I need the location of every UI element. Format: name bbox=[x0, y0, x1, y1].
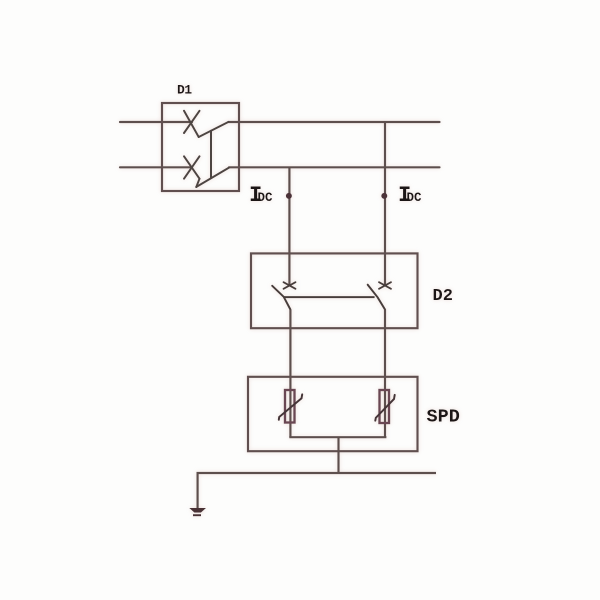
wire top bus right segment bbox=[229, 121, 440, 123]
wire D2 pole 1 to varistor RV1 bbox=[289, 310, 291, 438]
switch D2 linkage bar bbox=[284, 296, 375, 298]
breaker D1 pole 1 blade bbox=[199, 122, 229, 137]
wire bottom bus left segment bbox=[120, 166, 192, 168]
node IDC right dot bbox=[381, 193, 387, 199]
wire D2 pole 2 to varistor RV2 bbox=[384, 310, 386, 438]
breaker D1 pole 2 contact X bbox=[184, 156, 200, 187]
varistor RV2 body bbox=[380, 390, 390, 423]
svg-text:DC: DC bbox=[407, 191, 423, 205]
switch D2 pole 2 blade bbox=[368, 285, 385, 310]
switch D2 pole 2 contact x bbox=[379, 282, 391, 289]
varistor RV1 diagonal bbox=[279, 394, 302, 419]
SPD box bbox=[248, 377, 418, 451]
wire right drop from top bus to D2 bbox=[384, 122, 386, 285]
breaker D1 linkage bar bbox=[210, 131, 212, 178]
wire SPD common bar bbox=[289, 436, 386, 438]
wire left drop from bottom bus to D2 bbox=[288, 167, 290, 284]
breaker D1 pole 1 contact X bbox=[184, 111, 200, 137]
wire earth bus bbox=[198, 473, 436, 509]
breaker D1 box bbox=[162, 103, 239, 191]
switch D2 box bbox=[251, 253, 418, 328]
breaker D1 pole 2 blade bbox=[196, 168, 229, 187]
varistor RV2 diagonal bbox=[375, 395, 394, 421]
svg-text:D2: D2 bbox=[433, 287, 453, 306]
ground symbol bbox=[189, 508, 206, 515]
node IDC left dot bbox=[286, 193, 292, 199]
switch D2 pole 1 contact x bbox=[284, 282, 296, 289]
svg-text:SPD: SPD bbox=[427, 407, 460, 428]
svg-text:D1: D1 bbox=[177, 83, 192, 98]
switch D2 pole 1 blade bbox=[272, 286, 290, 310]
wire SPD common drop to earth bus bbox=[337, 437, 339, 473]
svg-text:DC: DC bbox=[258, 191, 274, 205]
wire top bus left segment bbox=[120, 121, 192, 123]
varistor RV1 body bbox=[285, 390, 295, 423]
wire bottom bus right segment bbox=[229, 166, 440, 168]
